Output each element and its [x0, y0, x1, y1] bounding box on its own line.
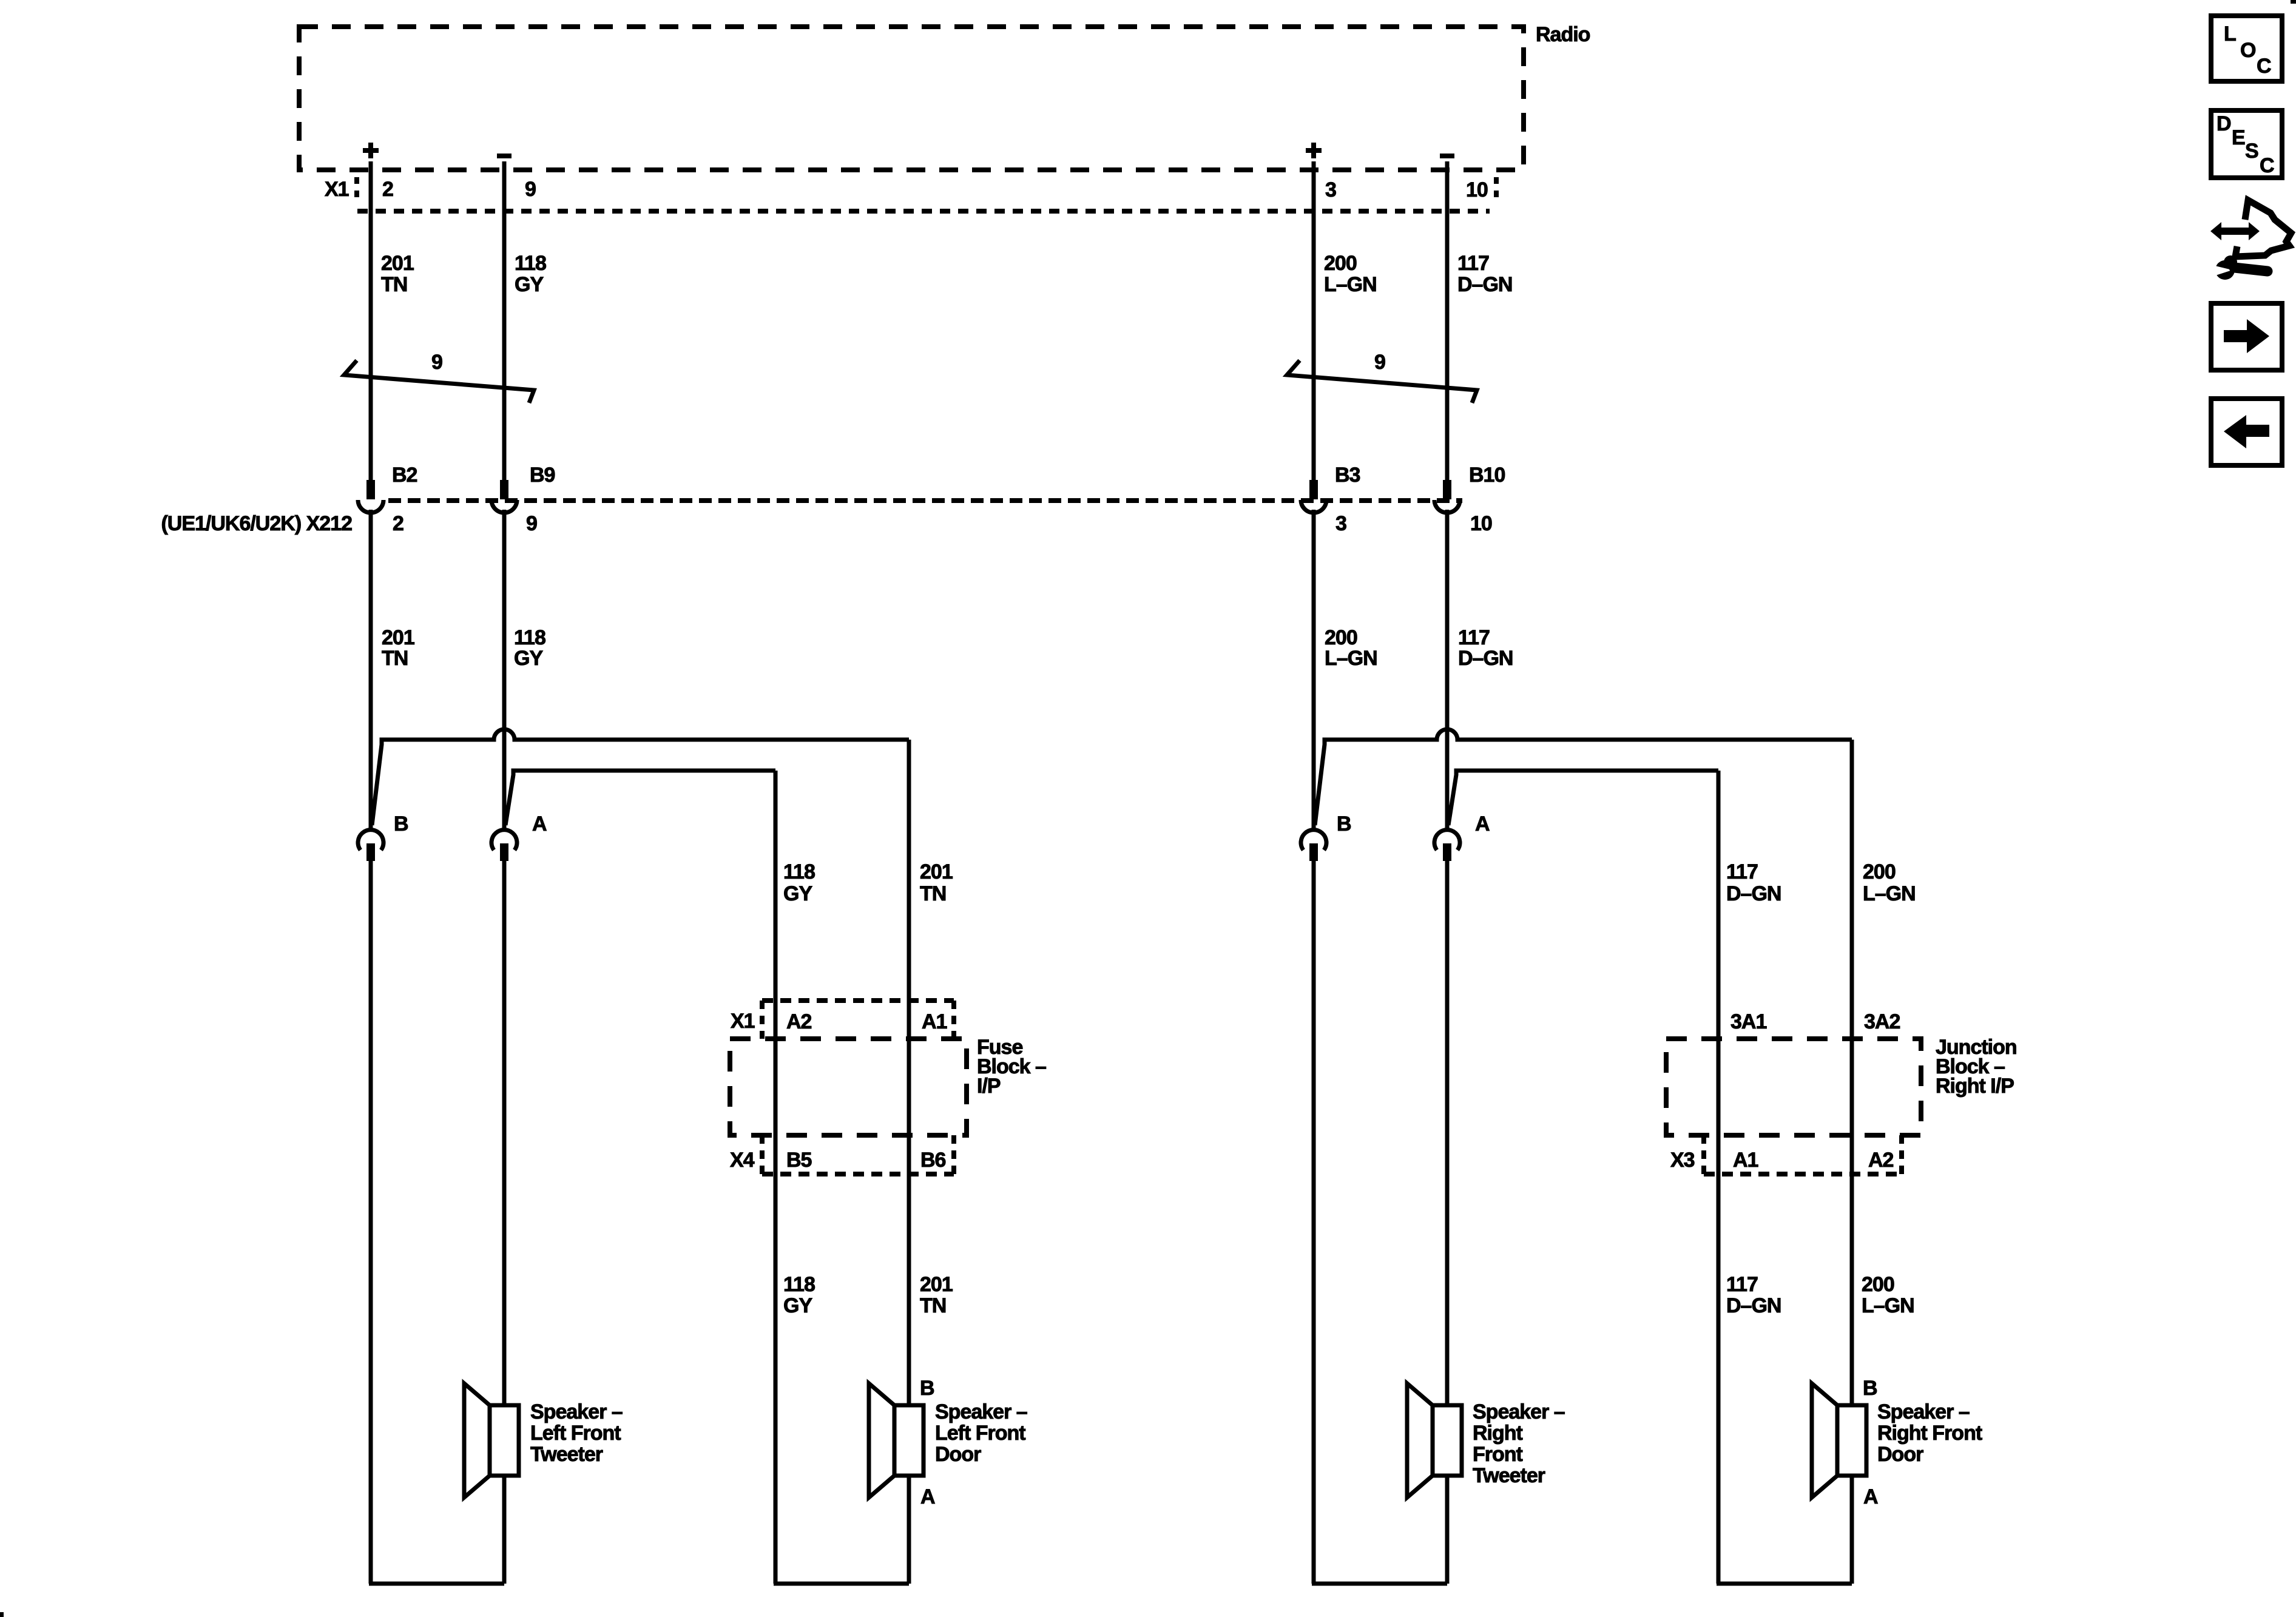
- terminal B10 cup: [1434, 500, 1460, 513]
- wire 200 L-GN (radio pin 3 down): [1312, 161, 1316, 480]
- wire left tweeter A down to speaker: [502, 861, 507, 1405]
- terminal B9 cup: [491, 500, 517, 513]
- svg-text:D: D: [2217, 112, 2231, 135]
- connector dome A: [1434, 830, 1460, 850]
- svg-text:A: A: [920, 1485, 935, 1508]
- wire 117 D-GN door feed down: [1717, 771, 1721, 1584]
- svg-text:L–GN: L–GN: [1325, 647, 1377, 670]
- svg-text:117: 117: [1457, 252, 1489, 275]
- connector X1 right tick: [1494, 177, 1499, 201]
- speaker left front tweeter cone: [464, 1383, 490, 1497]
- connector dome B: [358, 830, 383, 850]
- terminal B blade: [366, 843, 375, 861]
- svg-text:10: 10: [1466, 178, 1488, 201]
- twisted pair marker 9: [344, 360, 534, 403]
- sidebar DESC button: [2211, 110, 2282, 178]
- wire left tweeter bottom run: [369, 1582, 504, 1586]
- wire 117 D-GN (X212 to splice): [1445, 510, 1450, 829]
- svg-text:Tweeter: Tweeter: [530, 1443, 603, 1466]
- svg-text:Radio: Radio: [1536, 23, 1590, 46]
- sidebar next arrow button: [2211, 303, 2282, 370]
- connector dome B: [1301, 830, 1326, 850]
- svg-text:GY: GY: [783, 882, 812, 905]
- fuse block I/P dashed box: [730, 1039, 967, 1135]
- svg-text:Right I/P: Right I/P: [1936, 1075, 2014, 1098]
- connector X1 dotted line: [357, 209, 1490, 214]
- svg-text:(UE1/UK6/U2K) X212: (UE1/UK6/U2K) X212: [161, 512, 352, 535]
- svg-text:X1: X1: [731, 1010, 755, 1033]
- svg-text:Door: Door: [935, 1443, 981, 1466]
- svg-text:201: 201: [920, 1273, 953, 1296]
- speaker right front tweeter driver: [1433, 1405, 1462, 1476]
- svg-text:201: 201: [382, 626, 414, 649]
- wire right tweeter speaker bottom: [1445, 1476, 1450, 1584]
- svg-text:TN: TN: [920, 1294, 946, 1317]
- speaker left front door cone: [869, 1383, 894, 1497]
- junction block dashed box: [1666, 1039, 1921, 1135]
- wire 117 D-GN (radio pin 10 down): [1445, 161, 1450, 480]
- svg-text:A: A: [1863, 1485, 1878, 1508]
- page corner mark bottom left: [0, 1612, 4, 1617]
- svg-text:GY: GY: [783, 1294, 812, 1317]
- svg-text:Speaker –: Speaker –: [935, 1400, 1027, 1423]
- svg-text:B3: B3: [1335, 464, 1360, 487]
- speaker left front tweeter driver: [490, 1405, 519, 1476]
- wire branch to door (+) with hop over (-) wire: [1315, 729, 1852, 825]
- svg-text:118: 118: [783, 1273, 815, 1296]
- svg-text:X3: X3: [1670, 1149, 1695, 1172]
- radio - terminal mark: [497, 154, 512, 158]
- svg-text:X4: X4: [730, 1149, 755, 1172]
- svg-text:9: 9: [431, 351, 442, 374]
- terminal B2 blade: [366, 480, 375, 499]
- radio + terminal mark: [363, 148, 379, 153]
- svg-text:D–GN: D–GN: [1726, 882, 1781, 905]
- svg-text:GY: GY: [515, 273, 544, 296]
- connector X212 dashed line: [388, 498, 1462, 503]
- wire 201 TN (X212 to splice): [369, 510, 373, 829]
- wire left door bottom run: [774, 1582, 909, 1586]
- svg-text:200: 200: [1863, 860, 1896, 883]
- terminal A blade: [1443, 843, 1451, 861]
- sidebar jump icon wrench: [2215, 260, 2235, 280]
- wire left tweeter speaker bottom: [502, 1476, 507, 1584]
- fuse block X1 connector dotted top: [762, 998, 954, 1003]
- wire 200 L-GN door feed down: [1850, 740, 1854, 1405]
- page corner mark top right: [2291, 0, 2296, 4]
- svg-text:3: 3: [1335, 512, 1346, 535]
- wire right tweeter B down: [1312, 861, 1316, 1584]
- svg-text:9: 9: [525, 178, 536, 201]
- svg-text:A1: A1: [922, 1010, 947, 1033]
- sidebar back arrow button: [2211, 399, 2282, 465]
- terminal B2 cup: [358, 500, 383, 513]
- svg-text:D–GN: D–GN: [1458, 647, 1513, 670]
- svg-text:B6: B6: [920, 1149, 946, 1172]
- wire 118 GY (radio pin 9 down): [502, 161, 507, 480]
- svg-text:2: 2: [393, 512, 403, 535]
- svg-text:D–GN: D–GN: [1726, 1294, 1781, 1317]
- svg-text:B10: B10: [1469, 464, 1505, 487]
- svg-text:A1: A1: [1733, 1149, 1758, 1172]
- svg-text:A: A: [1475, 812, 1490, 836]
- svg-text:118: 118: [783, 860, 815, 883]
- svg-text:C: C: [2260, 154, 2274, 177]
- svg-text:A: A: [532, 812, 547, 836]
- svg-text:B2: B2: [392, 464, 417, 487]
- svg-text:L–GN: L–GN: [1324, 273, 1377, 296]
- svg-text:E: E: [2232, 126, 2245, 149]
- svg-text:Speaker –: Speaker –: [1473, 1400, 1565, 1423]
- svg-text:TN: TN: [920, 882, 946, 905]
- fuse block X4 connector dotted bottom: [762, 1172, 954, 1176]
- svg-text:118: 118: [514, 626, 545, 649]
- svg-text:L–GN: L–GN: [1862, 1294, 1914, 1317]
- wire 201 TN door feed down: [907, 740, 911, 1405]
- svg-text:9: 9: [1374, 351, 1385, 374]
- radio - terminal mark: [1440, 154, 1454, 158]
- svg-text:I/P: I/P: [977, 1075, 1001, 1098]
- junction block X3 connector dotted bottom: [1704, 1172, 1902, 1176]
- svg-text:Front: Front: [1473, 1443, 1523, 1466]
- wire right door bottom run: [1717, 1582, 1852, 1586]
- wire branch to door (-): [505, 771, 775, 825]
- terminal B blade: [1309, 843, 1318, 861]
- connector dome A: [491, 830, 517, 850]
- wire 118 GY (X212 to splice): [502, 510, 507, 829]
- radio (dashed box): [299, 27, 1524, 170]
- svg-text:Left Front: Left Front: [530, 1422, 621, 1445]
- svg-text:3A1: 3A1: [1730, 1010, 1766, 1033]
- wire 118 GY door feed down: [774, 771, 778, 1584]
- terminal B3 blade: [1309, 480, 1318, 499]
- speaker right front door driver: [1837, 1405, 1866, 1476]
- connector X1 left tick: [354, 177, 359, 201]
- svg-text:117: 117: [1726, 860, 1758, 883]
- svg-text:200: 200: [1325, 626, 1357, 649]
- wire left door speaker bottom: [907, 1476, 911, 1584]
- wire branch to door (-): [1448, 771, 1718, 825]
- svg-text:117: 117: [1726, 1273, 1758, 1296]
- svg-text:118: 118: [515, 252, 546, 275]
- svg-text:201: 201: [920, 860, 953, 883]
- svg-text:B: B: [1337, 812, 1351, 836]
- svg-text:L–GN: L–GN: [1863, 882, 1916, 905]
- svg-text:O: O: [2240, 39, 2256, 62]
- svg-text:B: B: [920, 1377, 934, 1400]
- svg-text:B9: B9: [530, 464, 555, 487]
- svg-text:A2: A2: [786, 1010, 812, 1033]
- svg-text:9: 9: [526, 512, 537, 535]
- svg-text:200: 200: [1324, 252, 1357, 275]
- wire right door speaker bottom: [1850, 1476, 1854, 1584]
- terminal B9 blade: [500, 480, 508, 499]
- svg-text:3: 3: [1325, 178, 1336, 201]
- svg-text:TN: TN: [382, 647, 408, 670]
- svg-text:L: L: [2224, 22, 2236, 46]
- sidebar jump icon hand outline: [2235, 200, 2291, 257]
- wire 201 TN (radio pin 2 down): [369, 161, 373, 480]
- svg-text:C: C: [2257, 55, 2271, 78]
- sidebar jump icon double arrow: [2210, 222, 2260, 240]
- svg-text:Tweeter: Tweeter: [1473, 1464, 1545, 1487]
- svg-text:117: 117: [1458, 626, 1490, 649]
- svg-text:Left Front: Left Front: [935, 1422, 1025, 1445]
- wire branch to door (+) with hop over (-) wire: [372, 729, 909, 825]
- svg-text:Right Front: Right Front: [1877, 1422, 1982, 1445]
- svg-text:A2: A2: [1868, 1149, 1894, 1172]
- terminal B10 blade: [1443, 480, 1451, 499]
- speaker left front door driver: [894, 1405, 923, 1476]
- svg-text:Right: Right: [1473, 1422, 1523, 1445]
- svg-text:B5: B5: [786, 1149, 812, 1172]
- wire 200 L-GN (X212 to splice): [1312, 510, 1316, 829]
- speaker right front tweeter cone: [1407, 1383, 1433, 1497]
- speaker right front door cone: [1812, 1383, 1837, 1497]
- svg-text:D–GN: D–GN: [1457, 273, 1512, 296]
- radio + terminal mark: [1306, 148, 1322, 153]
- svg-text:X1: X1: [325, 178, 349, 201]
- svg-text:GY: GY: [514, 647, 543, 670]
- terminal A blade: [500, 843, 508, 861]
- svg-text:3A2: 3A2: [1864, 1010, 1900, 1033]
- svg-text:Speaker –: Speaker –: [530, 1400, 623, 1423]
- svg-text:S: S: [2245, 140, 2258, 163]
- svg-text:Speaker –: Speaker –: [1877, 1400, 1970, 1423]
- wire right tweeter bottom run: [1312, 1582, 1447, 1586]
- svg-text:200: 200: [1862, 1273, 1894, 1296]
- svg-text:2: 2: [382, 178, 393, 201]
- wire left tweeter B down: [369, 861, 373, 1584]
- sidebar LOC button: [2211, 16, 2282, 81]
- svg-text:Door: Door: [1877, 1443, 1923, 1466]
- svg-text:10: 10: [1470, 512, 1492, 535]
- svg-text:TN: TN: [381, 273, 407, 296]
- twisted pair marker 9: [1287, 360, 1477, 403]
- svg-text:B: B: [1863, 1377, 1877, 1400]
- terminal B3 cup: [1301, 500, 1326, 513]
- wire right tweeter A down to speaker: [1445, 861, 1450, 1405]
- svg-text:201: 201: [381, 252, 414, 275]
- svg-text:B: B: [394, 812, 408, 836]
